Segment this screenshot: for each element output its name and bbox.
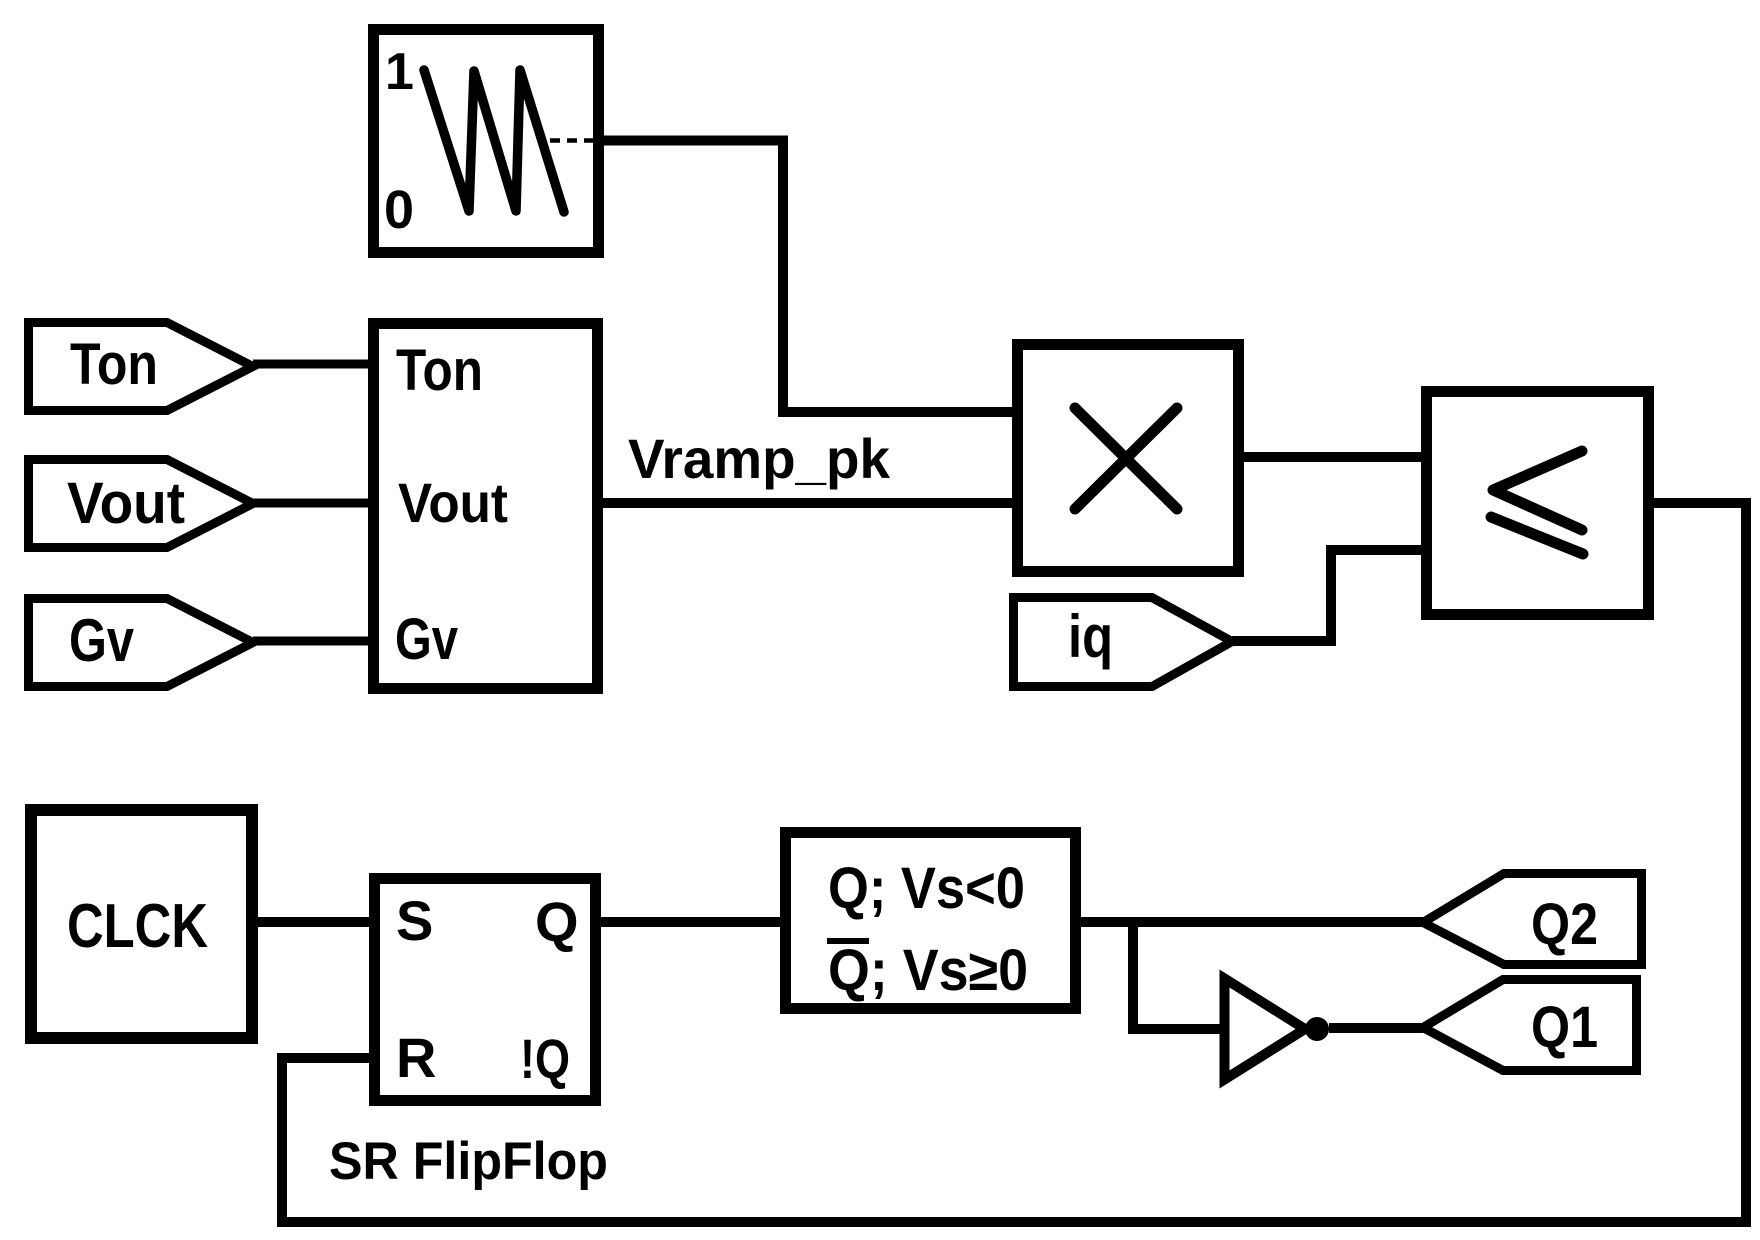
svg-text:Ton: Ton [396, 338, 483, 403]
svg-text:Ton: Ton [70, 332, 158, 397]
SR flip-flop U5 [375, 879, 596, 1101]
output port Q2 [1423, 874, 1642, 965]
wire Ton port to ramp-scaler [253, 360, 373, 369]
svg-text:Q; Vs<0: Q; Vs<0 [828, 856, 1025, 921]
comparator <= symbol [1493, 451, 1582, 530]
feedback wire: comparator output to SR flip-flop R input [282, 503, 1746, 1222]
wire logic box to Q2 port [1081, 917, 1423, 927]
svg-text:R: R [396, 1026, 436, 1089]
svg-text:Gv: Gv [395, 607, 458, 672]
input port Vout [29, 460, 254, 548]
svg-text:Gv: Gv [69, 607, 135, 674]
svg-text:Q2: Q2 [1531, 892, 1598, 957]
multiplier X symbol [1075, 408, 1177, 509]
branch wire to inverter [1133, 922, 1224, 1029]
svg-text:Vout: Vout [398, 471, 508, 534]
wire Gv port to ramp-scaler [253, 637, 373, 646]
svg-text:Vout: Vout [67, 471, 185, 536]
svg-text:Vramp_pk: Vramp_pk [628, 427, 891, 490]
svg-text:!Q: !Q [520, 1027, 570, 1090]
inverter U7 [1225, 979, 1306, 1080]
logic box U6 (Q; Vs<0 / Q_bar; Vs>=0) [786, 833, 1076, 1009]
svg-text:0: 0 [384, 180, 414, 240]
inverter bubble (filled) [1305, 1017, 1329, 1041]
overbar on Q [827, 938, 869, 944]
output port Q1 [1423, 980, 1637, 1071]
svg-text:1: 1 [385, 43, 414, 101]
svg-text:Q; Vs≥0: Q; Vs≥0 [828, 938, 1028, 1003]
svg-text:S: S [396, 889, 433, 952]
svg-text:CLCK: CLCK [67, 892, 208, 961]
svg-text:Q: Q [535, 890, 579, 953]
input port Ton [29, 323, 254, 411]
ramp generator box U1 [374, 30, 599, 253]
wire SR Q output to logic box [596, 917, 780, 927]
input port Gv [29, 599, 254, 687]
wire iq to comparator second input [1232, 550, 1426, 641]
svg-text:Q1: Q1 [1531, 995, 1598, 1060]
wire: ramp generator output to multiplier top input [599, 141, 1012, 413]
svg-text:SR FlipFlop: SR FlipFlop [329, 1132, 608, 1191]
wire Vramp_pk: ramp-scaler to multiplier bottom input [598, 498, 1012, 508]
comparator U4 [1427, 392, 1649, 615]
clock source CLCK [31, 810, 252, 1038]
wire inverter to Q1 port [1329, 1023, 1423, 1033]
sawtooth waveform [424, 70, 564, 212]
wire multiplier output to comparator [1238, 452, 1421, 462]
dashed output level line [550, 138, 600, 143]
wire Vout port to ramp-scaler [253, 499, 373, 508]
input port iq [1014, 598, 1233, 687]
ramp-scaler block U2 (Ton/Vout/Gv) [374, 324, 598, 689]
svg-text:iq: iq [1068, 603, 1113, 670]
multiplier U3 [1018, 345, 1239, 572]
wire CLCK to SR flip-flop S input [252, 917, 373, 927]
